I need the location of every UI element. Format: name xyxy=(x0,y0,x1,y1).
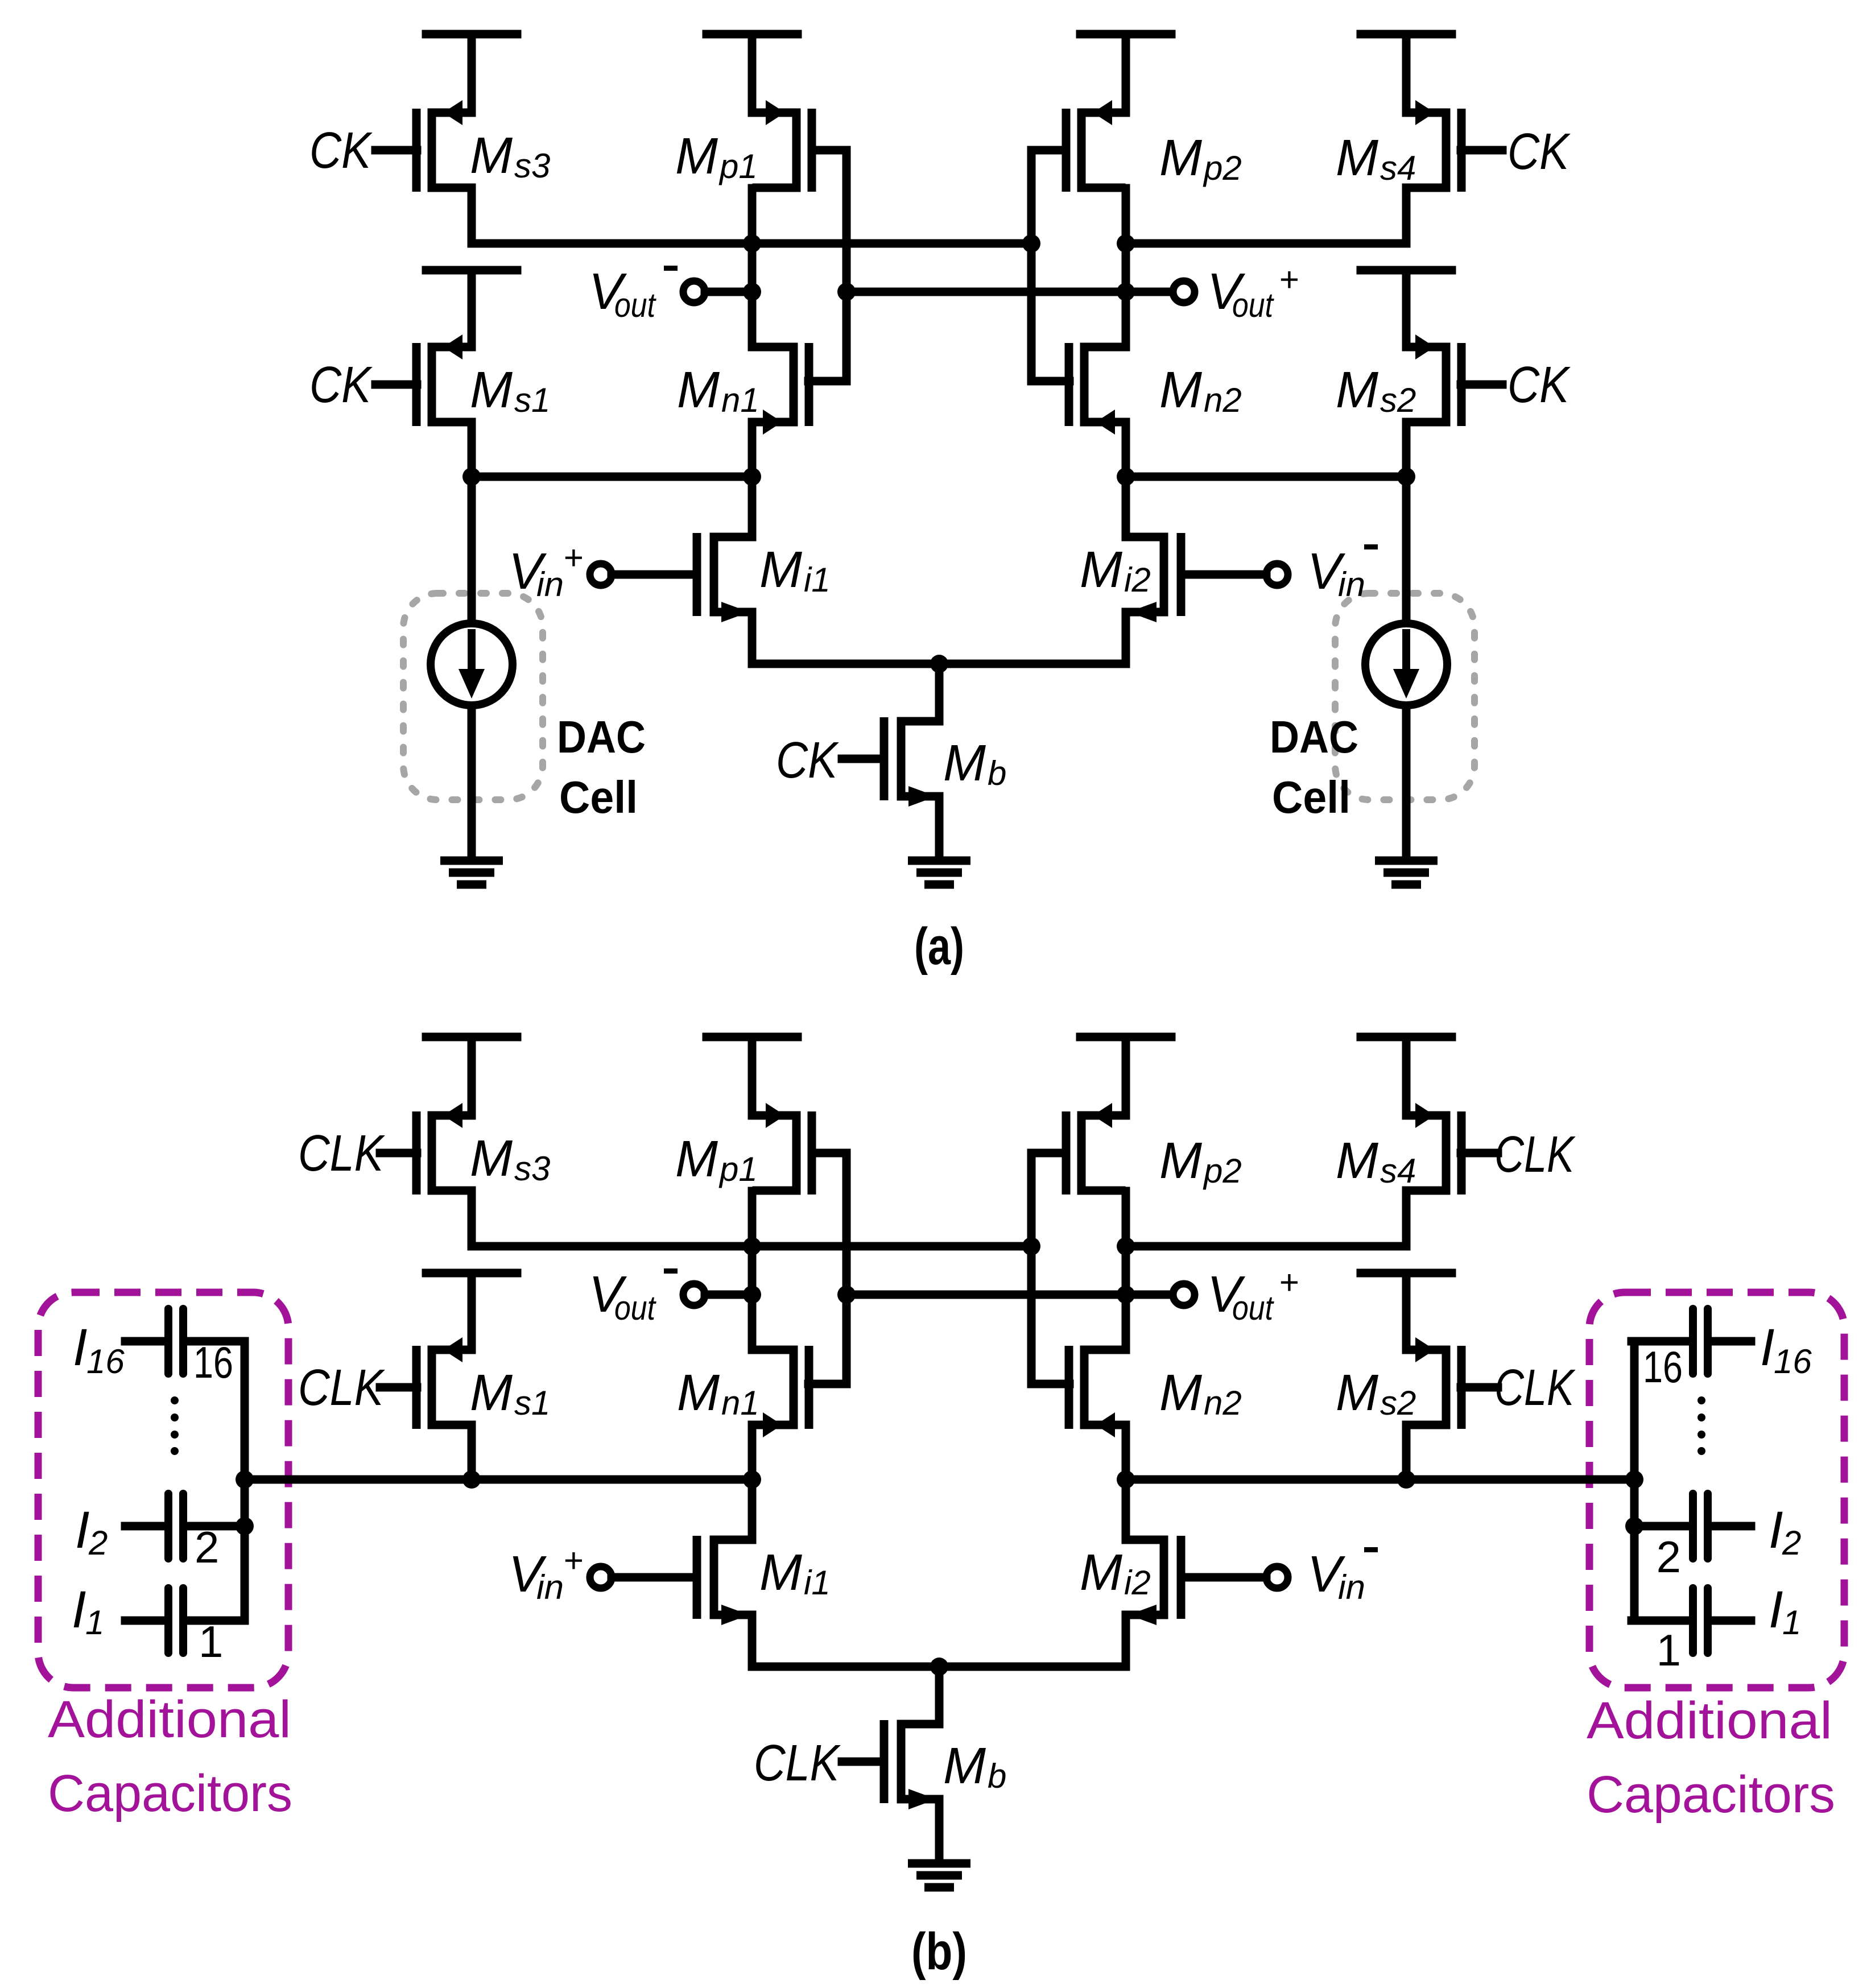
wire Mn1 source down xyxy=(748,422,757,477)
junction X+ rail / Mp2 drain xyxy=(1117,234,1135,253)
ground left DAC xyxy=(440,861,503,885)
svg-text:s3: s3 xyxy=(514,147,550,185)
transistor Ms1 xyxy=(416,334,472,426)
wire Ms3 drain down xyxy=(468,188,476,243)
transistor Ms3 (b) xyxy=(416,1103,472,1195)
svg-text:M: M xyxy=(470,1365,513,1421)
wire Mn2 source down xyxy=(1122,422,1130,477)
ellipsis dots right bank xyxy=(1697,1396,1705,1455)
wire Mi2 source down xyxy=(1122,612,1130,664)
svg-text:M: M xyxy=(1159,130,1202,187)
svg-text:M: M xyxy=(470,127,513,184)
svg-text:i1: i1 xyxy=(804,1564,831,1602)
svg-text:+: + xyxy=(1279,1263,1299,1301)
svg-text:I: I xyxy=(75,1501,90,1559)
wire left tap node to capacitor bank xyxy=(245,1475,752,1484)
svg-text:CK: CK xyxy=(309,357,373,414)
svg-text:s3: s3 xyxy=(514,1150,550,1188)
wire VDD to Mp1 source xyxy=(748,34,757,113)
junction Mp2 drain / Vout+ wire xyxy=(1117,283,1135,301)
terminal Vin+ (b) xyxy=(590,1567,612,1588)
svg-text:M: M xyxy=(470,362,513,419)
svg-text:M: M xyxy=(677,362,720,419)
svg-text:(b): (b) xyxy=(911,1923,967,1981)
transistor Mi1 (b) xyxy=(697,1536,752,1625)
junction Ms2 drain / right tap xyxy=(1397,468,1415,486)
svg-text:+: + xyxy=(563,1541,583,1580)
svg-text:16: 16 xyxy=(193,1337,233,1387)
wire Vout+ cross wire (Mp1 gate to Vout+ terminal) xyxy=(846,288,1174,296)
wire Mi1 source down (b) xyxy=(748,1615,757,1667)
VDD stub above Ms1 xyxy=(426,266,517,275)
wire Mp1 gate cross-couple (b) xyxy=(808,1153,846,1384)
svg-text:out: out xyxy=(614,286,656,324)
terminal Vout- xyxy=(683,281,705,303)
transistor Mb xyxy=(884,717,939,807)
capacitor 1 left xyxy=(125,1588,245,1653)
wire tail to Mb drain xyxy=(935,664,944,721)
wire VDD to Ms3 source (b) xyxy=(468,1037,476,1115)
wire CK gate lead Ms3 xyxy=(375,146,417,155)
transistor Mn2 xyxy=(1069,343,1124,435)
transistor Ms4 xyxy=(1406,100,1461,192)
svg-text:i2: i2 xyxy=(1124,561,1151,599)
svg-text:s4: s4 xyxy=(1380,149,1416,187)
additional capacitors box left xyxy=(38,1292,288,1688)
VDD stub above Mp1 (b) xyxy=(707,1033,798,1041)
wire left DAC column xyxy=(468,477,476,861)
wire VDD to Ms1 source (b) xyxy=(468,1273,476,1350)
wire Mi2 source down (b) xyxy=(1122,1615,1130,1667)
wire CK gate lead Ms4 xyxy=(1461,146,1502,155)
wire Mi1 drain up (b) xyxy=(748,1479,757,1540)
wire right bank bus xyxy=(1630,1341,1639,1621)
transistor Mp2 (b) xyxy=(1066,1103,1121,1195)
wire right tap node xyxy=(1126,473,1406,481)
wire Mb source to ground (b) xyxy=(935,1799,944,1863)
svg-text:2: 2 xyxy=(1657,1532,1681,1582)
wire Vout- to drain column (b) xyxy=(705,1291,752,1299)
transistor Mb (b) xyxy=(884,1720,939,1809)
svg-text:p1: p1 xyxy=(718,1150,758,1188)
junction left bank / tap wire xyxy=(236,1470,254,1489)
additional capacitors box right xyxy=(1589,1292,1844,1688)
terminal Vout+ (b) xyxy=(1173,1284,1195,1305)
svg-text:M: M xyxy=(675,128,718,185)
transistor Mn1 (b) xyxy=(754,1346,809,1437)
capacitor 16 left xyxy=(125,1309,245,1374)
transistor Mp2 xyxy=(1066,100,1121,192)
junction tail node (b) xyxy=(930,1658,948,1676)
terminal Vin- xyxy=(1266,564,1288,585)
junction Mn1 source / left tap (b) xyxy=(743,1470,761,1489)
wire Mp1 drain to Mn1 drain xyxy=(748,188,757,347)
wire VDD to Ms4 source (b) xyxy=(1402,1037,1411,1115)
svg-text:b: b xyxy=(988,1757,1006,1795)
capacitor 2 right xyxy=(1632,1494,1751,1559)
svg-text:1: 1 xyxy=(1657,1625,1681,1675)
svg-text:2: 2 xyxy=(195,1522,219,1572)
wire Mb source to ground xyxy=(935,796,944,861)
svg-text:2: 2 xyxy=(1782,1524,1801,1562)
wire Vout+ cross wire (b) xyxy=(846,1291,1174,1299)
svg-text:+: + xyxy=(1279,261,1299,299)
svg-text:CLK: CLK xyxy=(1494,1126,1576,1183)
junction Mn2 source / right tap xyxy=(1117,468,1135,486)
junction X- rail / Mp1 drain xyxy=(743,234,761,253)
transistor Mi2 xyxy=(1126,533,1181,622)
transistor Ms1 (b) xyxy=(416,1337,472,1429)
svg-text:CK: CK xyxy=(309,122,373,179)
wire CLK gate lead Ms3 (b) xyxy=(380,1149,417,1158)
svg-text:CK: CK xyxy=(1507,123,1571,180)
junction Ms1 drain / left tap (b) xyxy=(462,1470,481,1489)
svg-text:CLK: CLK xyxy=(1494,1359,1576,1416)
svg-text:p2: p2 xyxy=(1203,149,1242,187)
junction Mn2 source / right tap (b) xyxy=(1117,1470,1135,1489)
wire Mn1 source down (b) xyxy=(748,1425,757,1479)
capacitor 16 right xyxy=(1632,1309,1751,1374)
terminal Vin- (b) xyxy=(1266,1567,1288,1588)
svg-text:M: M xyxy=(1336,130,1378,187)
svg-text:M: M xyxy=(1080,1544,1122,1601)
svg-text:Cell: Cell xyxy=(559,772,638,823)
current source left DAC xyxy=(431,623,513,705)
junction gate column / Vout+ wire (b) xyxy=(837,1286,856,1304)
svg-text:M: M xyxy=(1336,1365,1378,1421)
svg-text:16: 16 xyxy=(1643,1342,1683,1392)
svg-text:M: M xyxy=(677,1365,720,1421)
wire CK gate lead Mb xyxy=(842,755,884,763)
wire rail node X+ (b) xyxy=(1126,1242,1406,1251)
svg-text:I: I xyxy=(73,1319,88,1377)
svg-text:1: 1 xyxy=(199,1617,223,1667)
terminal Vout- (b) xyxy=(683,1284,705,1305)
ground center (b) xyxy=(908,1863,970,1887)
wire Ms4 drain down (b) xyxy=(1402,1191,1411,1246)
DAC cell box left xyxy=(403,593,543,800)
wire Mn2 source down (b) xyxy=(1122,1425,1130,1479)
svg-text:in: in xyxy=(1338,1568,1365,1606)
svg-text:Capacitors: Capacitors xyxy=(1587,1766,1835,1824)
svg-text:M: M xyxy=(943,1738,986,1795)
svg-text:M: M xyxy=(943,735,986,792)
svg-text:s2: s2 xyxy=(1380,381,1416,419)
svg-text:CLK: CLK xyxy=(298,1125,385,1182)
svg-text:+: + xyxy=(563,539,583,577)
terminal Vin+ xyxy=(590,564,612,585)
wire tail node xyxy=(752,660,1126,668)
junction right bank / tap wire xyxy=(1625,1470,1643,1489)
svg-text:DAC: DAC xyxy=(557,712,646,762)
wire rail node X+ (Mp2 drain to Ms4 drain) xyxy=(1126,239,1406,248)
wire left tap node xyxy=(472,473,752,481)
junction Mn1 source / left tap xyxy=(743,468,761,486)
svg-text:M: M xyxy=(1159,362,1202,419)
svg-text:n2: n2 xyxy=(1204,381,1242,419)
junction Ms1 drain / left tap xyxy=(462,468,481,486)
svg-text:Additional: Additional xyxy=(1587,1692,1832,1750)
svg-text:i1: i1 xyxy=(804,561,831,599)
svg-text:I: I xyxy=(1769,1501,1783,1559)
svg-text:Capacitors: Capacitors xyxy=(48,1764,292,1822)
svg-text:n1: n1 xyxy=(721,1384,759,1422)
junction Ms2 drain / right tap (b) xyxy=(1397,1470,1415,1489)
svg-text:1: 1 xyxy=(1782,1603,1801,1642)
VDD stub above Mp1 xyxy=(707,30,798,39)
ground right DAC xyxy=(1375,861,1438,885)
wire Vin+ to Mi1 gate xyxy=(612,571,697,579)
VDD stub above Ms1 (b) xyxy=(426,1269,517,1278)
VDD stub above Ms3 (b) xyxy=(426,1033,517,1041)
wire Ms4 drain down xyxy=(1402,188,1411,243)
wire Vin- to Mi2 gate (b) xyxy=(1181,1573,1266,1582)
VDD stub above Ms4 xyxy=(1361,30,1452,39)
wire tail to Mb drain (b) xyxy=(935,1667,944,1724)
wire VDD to Ms4 source xyxy=(1402,34,1411,113)
wire rail node X- (Ms3 drain to Mp2 gate) xyxy=(472,239,1031,248)
capacitor 1 right xyxy=(1632,1588,1751,1653)
svg-text:DAC: DAC xyxy=(1270,712,1358,762)
VDD stub above Mp2 xyxy=(1080,30,1171,39)
junction right bank cap2 xyxy=(1625,1517,1643,1535)
wire Ms2 drain down xyxy=(1402,422,1411,477)
wire Mi2 drain up (b) xyxy=(1122,1479,1130,1540)
transistor Mn2 (b) xyxy=(1069,1346,1124,1437)
transistor Ms4 (b) xyxy=(1406,1103,1461,1195)
wire Vin- to Mi2 gate xyxy=(1181,571,1266,579)
wire CLK gate lead Ms4 (b) xyxy=(1461,1149,1498,1158)
wire VDD to Ms2 source xyxy=(1402,270,1411,347)
ellipsis dots left bank xyxy=(171,1396,179,1455)
wire CLK gate lead Ms1 (b) xyxy=(380,1383,417,1392)
wire right DAC column xyxy=(1402,477,1411,861)
VDD stub above Ms3 xyxy=(426,30,517,39)
DAC cell box right xyxy=(1335,593,1475,800)
svg-text:CK: CK xyxy=(776,732,839,789)
wire VDD to Ms3 source xyxy=(468,34,476,113)
svg-text:p1: p1 xyxy=(718,147,758,185)
svg-text:M: M xyxy=(1159,1365,1202,1421)
junction Mp2 drain / Vout+ wire (b) xyxy=(1117,1286,1135,1304)
wire Mp1 drain to Mn1 drain (b) xyxy=(748,1191,757,1350)
svg-text:M: M xyxy=(759,1544,802,1601)
wire Mi2 drain up xyxy=(1122,477,1130,537)
wire Ms3 drain down (b) xyxy=(468,1191,476,1246)
svg-text:out: out xyxy=(614,1289,656,1327)
VDD stub above Mp2 (b) xyxy=(1080,1033,1171,1041)
transistor Mn1 xyxy=(754,343,809,435)
svg-text:M: M xyxy=(1080,542,1122,598)
wire VDD to Mp2 source xyxy=(1122,34,1130,113)
wire Mp2 drain to Mn2 drain (b) xyxy=(1122,1191,1130,1350)
svg-text:I: I xyxy=(1760,1319,1775,1377)
svg-text:16: 16 xyxy=(86,1342,125,1381)
junction gate column / Vout+ wire xyxy=(837,283,856,301)
transistor Mp1 xyxy=(757,100,812,192)
svg-text:out: out xyxy=(1232,286,1274,324)
svg-text:s1: s1 xyxy=(514,1384,550,1422)
wire VDD to Ms2 source (b) xyxy=(1402,1273,1411,1350)
current source right DAC xyxy=(1365,623,1447,705)
wire left bank bus xyxy=(241,1341,249,1621)
svg-text:in: in xyxy=(536,565,564,604)
junction tail node xyxy=(930,655,948,673)
wire VDD to Mp1 source (b) xyxy=(748,1037,757,1115)
transistor Mp1 (b) xyxy=(757,1103,812,1195)
svg-text:I: I xyxy=(1769,1581,1783,1639)
junction Vout- node xyxy=(743,283,761,301)
svg-text:M: M xyxy=(759,542,802,598)
svg-text:Cell: Cell xyxy=(1272,772,1350,823)
junction X- rail / Mp1 drain (b) xyxy=(743,1237,761,1255)
svg-text:1: 1 xyxy=(85,1603,104,1642)
junction X- rail / Mp2 gate xyxy=(1022,234,1040,253)
terminal Vout+ xyxy=(1173,281,1195,303)
wire CLK gate lead Mb (b) xyxy=(842,1758,884,1766)
wire Mp1 gate cross-couple xyxy=(808,150,846,381)
wire VDD to Ms1 source xyxy=(468,270,476,347)
svg-text:n1: n1 xyxy=(721,381,759,419)
svg-text:CLK: CLK xyxy=(754,1735,841,1792)
capacitor 2 left xyxy=(125,1494,245,1559)
svg-text:16: 16 xyxy=(1774,1342,1812,1381)
svg-text:Additional: Additional xyxy=(48,1691,291,1749)
wire Vin+ to Mi1 gate (b) xyxy=(612,1573,697,1582)
svg-text:n2: n2 xyxy=(1204,1384,1242,1422)
junction left bank cap2 xyxy=(236,1517,254,1535)
svg-text:CK: CK xyxy=(1507,357,1571,414)
wire Ms1 drain down (b) xyxy=(468,1425,476,1479)
svg-text:out: out xyxy=(1232,1289,1274,1327)
wire CLK gate lead Ms2 (b) xyxy=(1461,1383,1498,1392)
ground center xyxy=(908,861,970,885)
junction X+ rail / Mp2 drain (b) xyxy=(1117,1237,1135,1255)
svg-text:in: in xyxy=(1338,565,1365,604)
wire Mi1 drain up xyxy=(748,477,757,537)
svg-text:M: M xyxy=(470,1130,513,1187)
svg-text:CLK: CLK xyxy=(298,1359,385,1416)
transistor Mi2 (b) xyxy=(1126,1536,1181,1625)
junction Vout- node (b) xyxy=(743,1286,761,1304)
svg-text:i2: i2 xyxy=(1124,1564,1151,1602)
wire rail node X- (b) xyxy=(472,1242,1031,1251)
svg-text:M: M xyxy=(1336,1133,1378,1189)
transistor Ms2 xyxy=(1406,334,1461,426)
svg-text:(a): (a) xyxy=(914,917,964,976)
wire CK gate lead Ms2 xyxy=(1461,381,1502,389)
wire Mp2 drain to Mn2 drain xyxy=(1122,188,1130,347)
svg-text:M: M xyxy=(1159,1133,1202,1189)
svg-text:2: 2 xyxy=(88,1524,108,1562)
wire Mi1 source down xyxy=(748,612,757,664)
svg-text:M: M xyxy=(675,1131,718,1188)
transistor Mi1 xyxy=(697,533,752,622)
wire Mp2 gate cross-couple (b) xyxy=(1031,1153,1069,1384)
svg-text:M: M xyxy=(1336,362,1378,419)
wire Ms1 drain down xyxy=(468,422,476,477)
junction X- rail / Mp2 gate (b) xyxy=(1022,1237,1040,1255)
wire tail node (b) xyxy=(752,1663,1126,1671)
wire Ms2 drain down (b) xyxy=(1402,1425,1411,1479)
wire Mp2 gate cross-couple xyxy=(1031,150,1069,381)
svg-text:s4: s4 xyxy=(1380,1152,1416,1190)
VDD stub above Ms4 (b) xyxy=(1361,1033,1452,1041)
svg-text:I: I xyxy=(72,1581,86,1639)
svg-text:b: b xyxy=(988,754,1006,792)
svg-text:p2: p2 xyxy=(1203,1152,1242,1190)
VDD stub above Ms2 xyxy=(1361,266,1452,275)
transistor Ms3 xyxy=(416,100,472,192)
svg-text:s1: s1 xyxy=(514,381,550,419)
wire VDD to Mp2 source (b) xyxy=(1122,1037,1130,1115)
wire Vout- to drain column xyxy=(705,288,752,296)
svg-text:in: in xyxy=(536,1568,564,1606)
wire right tap node to capacitor bank xyxy=(1126,1475,1634,1484)
wire CK gate lead Ms1 xyxy=(375,381,417,389)
transistor Ms2 (b) xyxy=(1406,1337,1461,1429)
svg-text:s2: s2 xyxy=(1380,1384,1416,1422)
VDD stub above Ms2 (b) xyxy=(1361,1269,1452,1278)
